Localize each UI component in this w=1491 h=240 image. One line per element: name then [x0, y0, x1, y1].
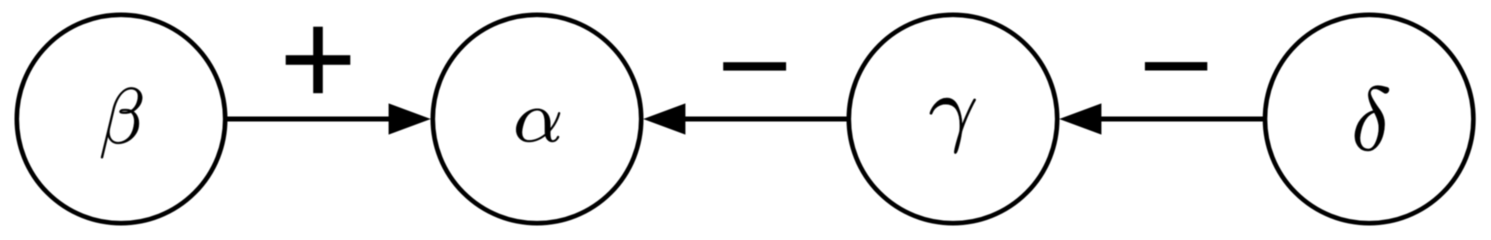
node beta (circle): [17, 15, 225, 223]
edge beta to alpha (wire): [227, 117, 390, 122]
node delta (circle): [1265, 15, 1473, 223]
arrowhead delta to gamma: [1059, 103, 1101, 134]
node alpha (circle): [433, 15, 641, 223]
edge gamma to alpha (wire): [683, 117, 847, 122]
label delta: [1355, 86, 1389, 151]
plus sign label: [286, 27, 351, 94]
edge delta to gamma (wire): [1099, 117, 1263, 122]
arrowhead beta to alpha: [389, 103, 431, 134]
label alpha: [516, 109, 560, 142]
label beta: [101, 87, 142, 158]
minus sign label 2: [1145, 62, 1207, 70]
node gamma (circle): [849, 15, 1057, 223]
arrowhead gamma to alpha: [643, 103, 685, 134]
label gamma: [930, 98, 976, 154]
minus sign label 1: [723, 62, 786, 70]
